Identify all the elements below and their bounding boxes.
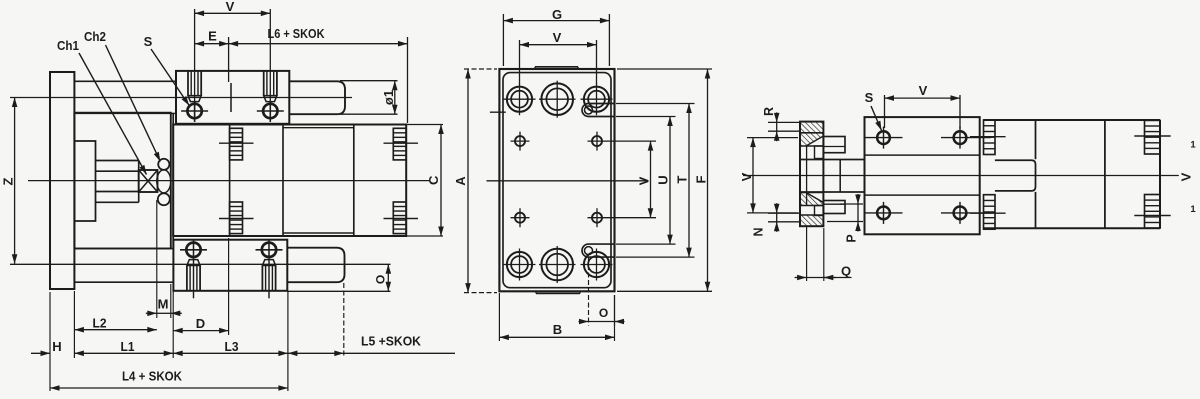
svg-text:V: V [553,30,562,45]
svg-text:L1: L1 [121,339,135,354]
svg-text:V: V [919,83,928,98]
svg-text:L5 +SKOK: L5 +SKOK [361,334,422,349]
svg-text:O: O [599,306,608,320]
svg-text:1: 1 [1190,204,1196,215]
svg-text:V: V [226,0,235,14]
svg-text:C: C [426,175,441,185]
svg-text:V: V [636,176,651,185]
svg-text:B: B [553,322,562,337]
svg-text:ø1: ø1 [381,90,396,105]
svg-text:H: H [52,339,61,354]
svg-text:E: E [208,29,217,44]
svg-text:Q: Q [841,264,851,279]
svg-text:G: G [552,7,562,22]
svg-text:V: V [1178,172,1193,181]
svg-text:T: T [674,175,689,183]
svg-text:S: S [865,90,874,105]
svg-text:U: U [655,175,670,184]
svg-text:P: P [845,234,859,242]
svg-text:Z: Z [0,177,15,185]
svg-text:A: A [453,176,468,186]
svg-text:R: R [762,107,776,116]
svg-text:M: M [158,297,169,312]
svg-text:L2: L2 [93,316,107,331]
svg-text:N: N [752,227,766,236]
svg-text:L3: L3 [225,339,239,354]
svg-text:L6 + SKOK: L6 + SKOK [268,26,326,41]
svg-text:Ch1: Ch1 [57,39,79,53]
svg-text:D: D [196,316,205,331]
svg-text:S: S [144,34,153,49]
svg-text:O: O [374,275,388,284]
svg-text:1: 1 [1190,140,1196,151]
svg-text:L4 + SKOK: L4 + SKOK [122,369,183,384]
svg-text:F: F [694,175,709,183]
svg-text:V: V [739,172,754,181]
svg-text:Ch2: Ch2 [84,30,106,44]
